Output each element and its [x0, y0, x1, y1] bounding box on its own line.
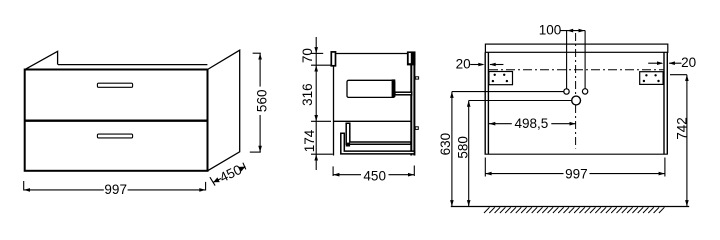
upper drawer box — [347, 80, 395, 97]
dimension 20 left — [456, 56, 504, 71]
right mounting bracket — [640, 72, 663, 85]
svg-text:450: 450 — [363, 169, 386, 184]
dimension 997 (front view) — [24, 181, 206, 197]
lower drawer channel — [346, 123, 411, 144]
drawer divider — [24, 119, 208, 121]
drain hole — [572, 96, 581, 105]
drain axis (dash-dot vertical) — [575, 33, 577, 96]
fixing hole right — [582, 89, 587, 94]
svg-text:20: 20 — [456, 56, 471, 71]
cabinet back top edge — [58, 64, 207, 66]
cabinet bottom line — [485, 153, 668, 155]
back top rail block — [407, 51, 416, 65]
front top rail block — [331, 52, 335, 66]
svg-text:580: 580 — [456, 136, 471, 159]
drawer handle 1 — [97, 83, 132, 87]
upper drawer slide rail — [395, 92, 412, 95]
fixing hole left — [564, 89, 569, 94]
drawer handle 2 — [97, 134, 132, 138]
dimension column 70/316/174 (side view) — [300, 37, 333, 170]
svg-text:20: 20 — [681, 55, 696, 70]
right side panel lines — [663, 52, 665, 154]
countertop band — [485, 44, 667, 52]
dimension 997 (installation view) — [485, 158, 665, 182]
hanging rail axis (dash-dot) — [489, 69, 664, 71]
left side panel top (triangle) — [25, 51, 58, 69]
wall bracket stub lower — [415, 127, 418, 130]
svg-text:316: 316 — [300, 83, 315, 106]
carcass front edge — [333, 54, 335, 156]
svg-text:997: 997 — [565, 167, 588, 182]
floor line — [451, 206, 689, 208]
svg-text:560: 560 — [255, 90, 270, 113]
dimension 20 right — [648, 55, 696, 70]
floor hatching — [484, 207, 664, 213]
left side panel lines — [484, 52, 486, 154]
wall bracket stub upper — [415, 77, 418, 79]
svg-text:742: 742 — [674, 117, 689, 140]
dimension 630 — [438, 92, 564, 207]
dimension 580 — [456, 101, 572, 207]
dimension 100 (tap holes) — [539, 22, 585, 88]
dimension 498,5 — [489, 116, 576, 131]
dimension 450 (front view, oblique) — [210, 162, 246, 186]
dimension 450 (side view) — [333, 166, 414, 184]
svg-text:630: 630 — [438, 133, 453, 156]
carcass top edge — [334, 53, 416, 55]
svg-text:70: 70 — [300, 48, 315, 63]
drawer divider (side) — [334, 120, 411, 122]
svg-text:997: 997 — [104, 182, 127, 197]
left mounting bracket — [489, 72, 513, 85]
right side panel (oblique quad) — [208, 50, 240, 171]
dimension 742 — [670, 75, 689, 207]
cabinet front face — [25, 70, 208, 171]
upper drawer back wall — [392, 79, 396, 97]
cabinet bottom channel — [341, 133, 415, 154]
svg-text:100: 100 — [539, 22, 562, 37]
dimension 560 (front view) — [250, 53, 270, 152]
svg-text:498,5: 498,5 — [515, 116, 549, 131]
back panel lines — [410, 52, 412, 156]
svg-text:174: 174 — [302, 129, 317, 152]
